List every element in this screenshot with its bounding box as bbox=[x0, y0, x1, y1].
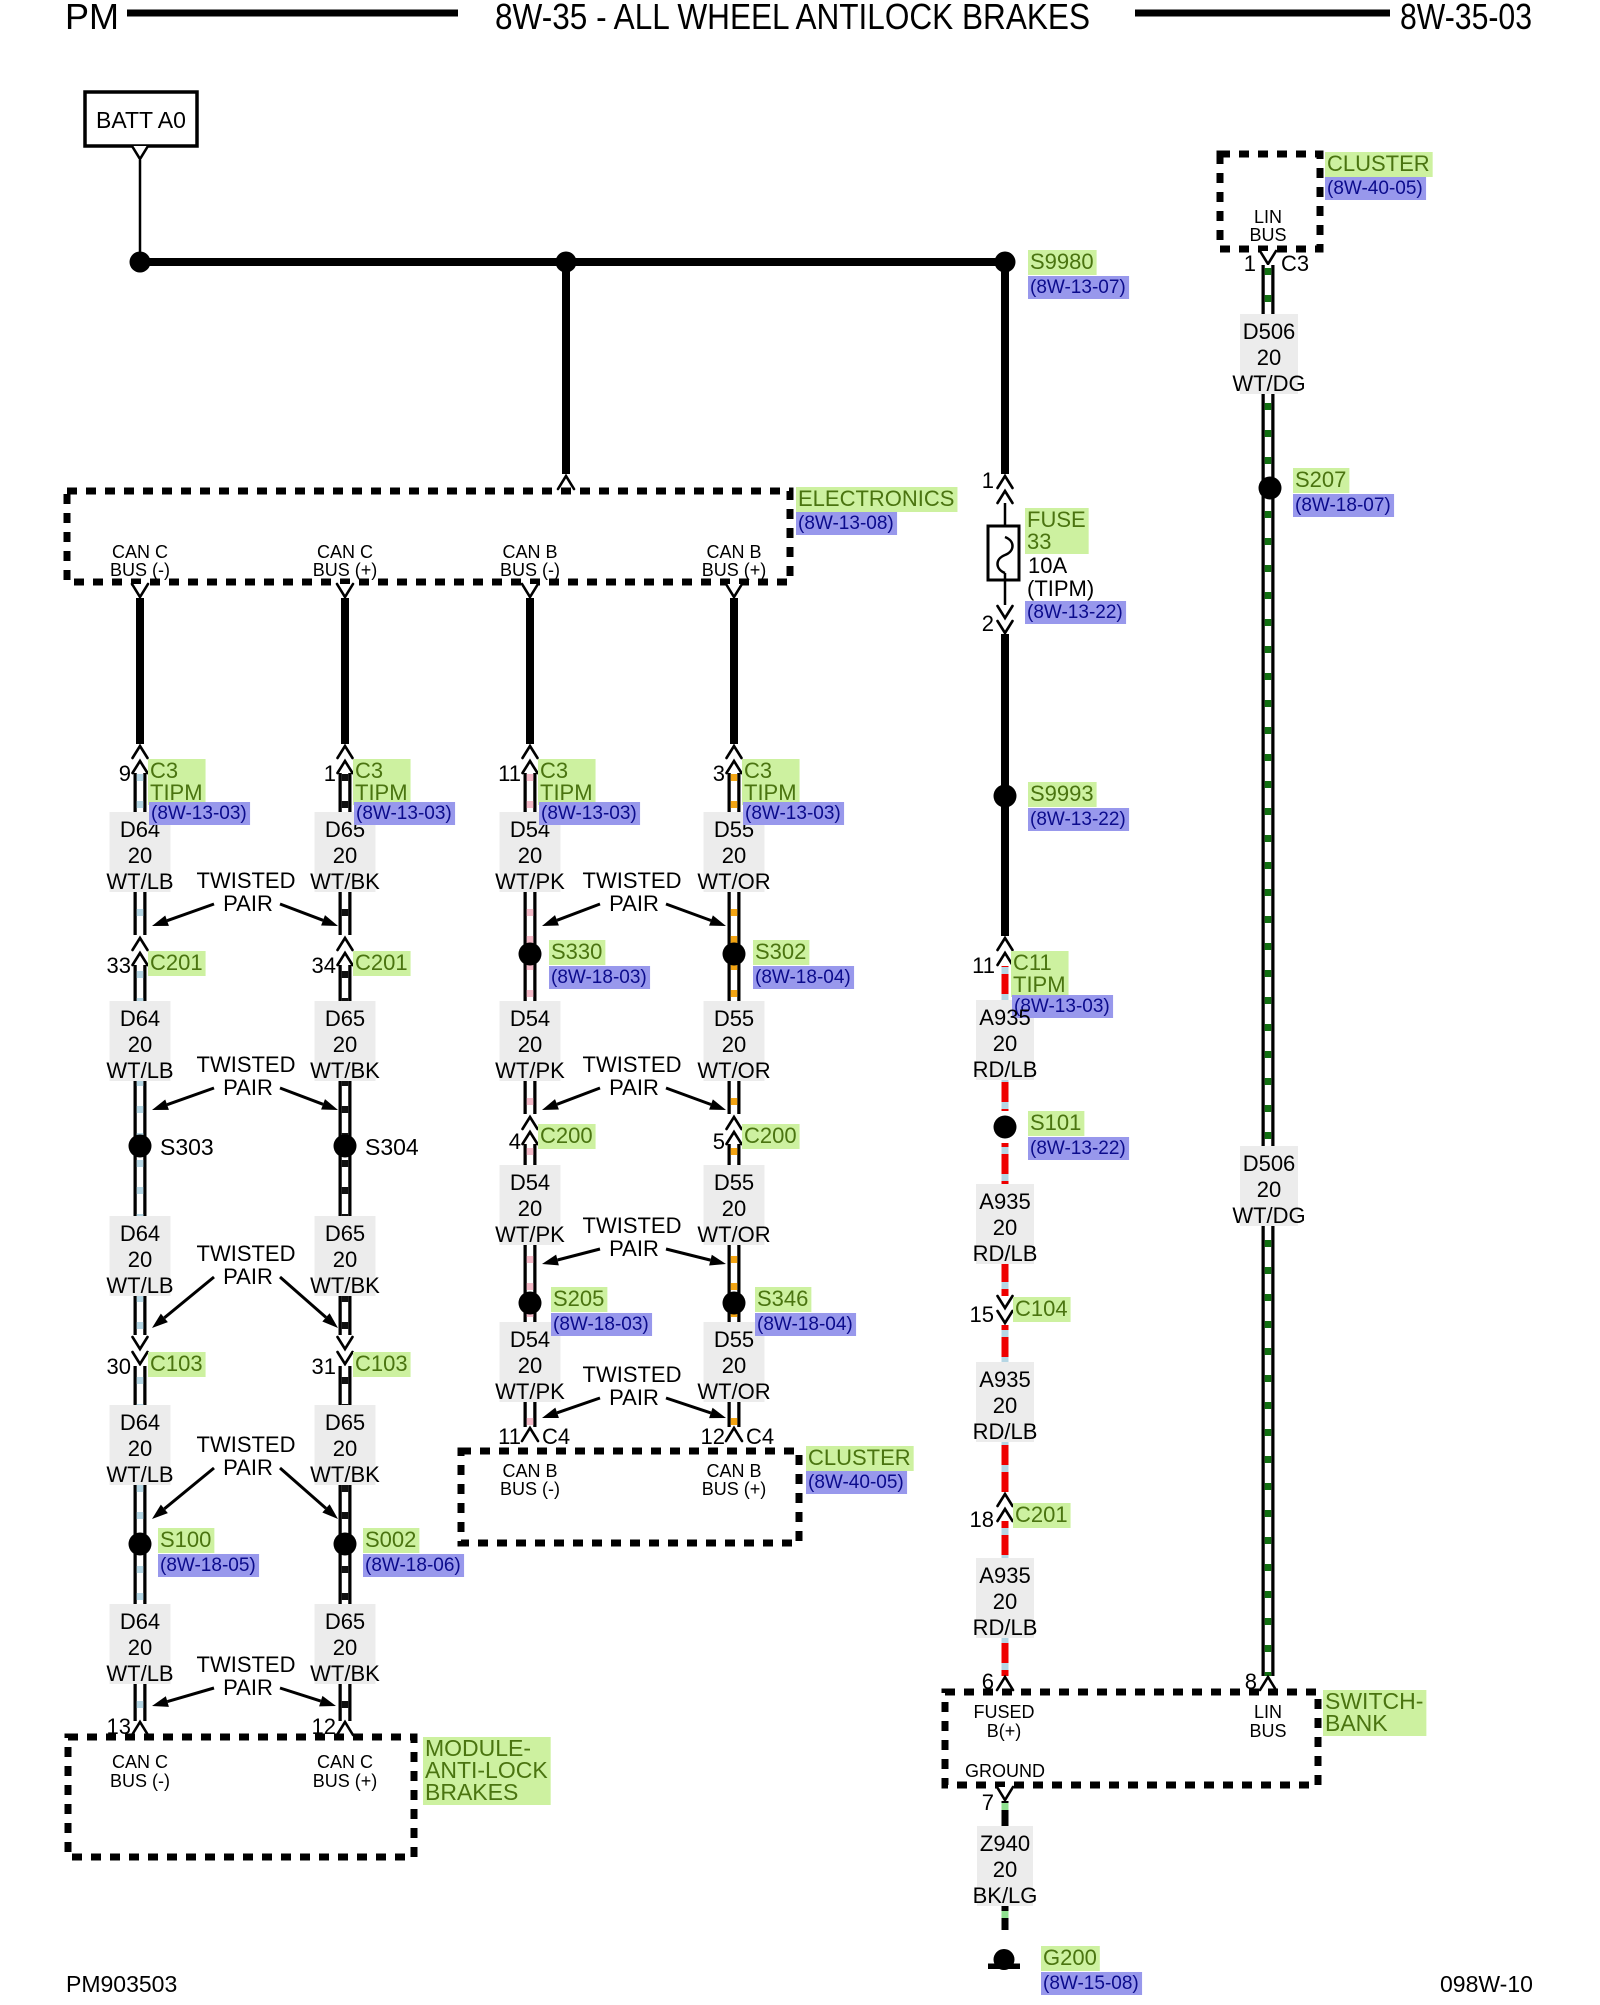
svg-text:TIPM: TIPM bbox=[355, 780, 408, 805]
pin chevron below ELECTRONICS canc+ bbox=[337, 584, 353, 597]
svg-text:LIN: LIN bbox=[1254, 1702, 1282, 1722]
module box CLUSTER (bottom) bbox=[461, 1451, 799, 1543]
svg-text:8W-35-03: 8W-35-03 bbox=[1400, 0, 1532, 37]
svg-text:1: 1 bbox=[982, 468, 994, 493]
connector C3 TIPM pin 3 chevrons bbox=[727, 746, 742, 773]
label S9980 page ref (8W-13-07) bbox=[1028, 276, 1129, 299]
svg-text:1: 1 bbox=[1244, 251, 1256, 276]
wire D65 WT/BK segment 2 bbox=[339, 965, 352, 1335]
connector C201 pin 34 chevrons bbox=[338, 938, 353, 965]
svg-text:TIPM: TIPM bbox=[150, 780, 203, 805]
svg-text:TWISTED: TWISTED bbox=[197, 1652, 296, 1677]
connector C200 pin 5 chevrons bbox=[727, 1117, 742, 1144]
wire BATT A0 to bus bbox=[139, 160, 142, 252]
connector C3 TIPM pin 9 chevrons bbox=[133, 746, 148, 773]
svg-text:(8W-13-03): (8W-13-03) bbox=[151, 803, 247, 824]
svg-text:S100: S100 bbox=[160, 1527, 211, 1552]
svg-text:CAN C: CAN C bbox=[317, 1752, 373, 1772]
connector label C103 x=345 bbox=[353, 1351, 411, 1377]
wire S9980 down to fuse pin 1 bbox=[1001, 262, 1009, 474]
svg-text:C200: C200 bbox=[744, 1123, 797, 1148]
label S9993 bbox=[1028, 781, 1097, 807]
svg-text:C103: C103 bbox=[150, 1351, 203, 1376]
pin chevron below ELECTRONICS canb+ bbox=[726, 584, 742, 597]
svg-text:GROUND: GROUND bbox=[965, 1761, 1045, 1781]
svg-text:WT/PK: WT/PK bbox=[495, 869, 565, 894]
svg-text:D506: D506 bbox=[1243, 319, 1296, 344]
pin chevron 12 into module bbox=[337, 1722, 353, 1735]
twisted pair callout 4 (CAN B) bbox=[542, 1362, 726, 1418]
connector label C104 bbox=[1013, 1296, 1071, 1322]
cluster pin label CAN B BUS (-) bbox=[500, 1461, 560, 1499]
svg-text:TWISTED: TWISTED bbox=[197, 1052, 296, 1077]
svg-text:D65: D65 bbox=[325, 1410, 365, 1435]
splice S207 bbox=[1259, 477, 1282, 500]
svg-text:D55: D55 bbox=[714, 1006, 754, 1031]
svg-text:B(+): B(+) bbox=[987, 1721, 1022, 1741]
svg-text:BUS (+): BUS (+) bbox=[313, 1771, 378, 1791]
svg-text:D64: D64 bbox=[120, 1609, 160, 1634]
label G200 bbox=[1041, 1945, 1100, 1971]
svg-text:PAIR: PAIR bbox=[609, 1236, 659, 1261]
svg-text:WT/LB: WT/LB bbox=[106, 1273, 173, 1298]
svg-text:RD/LB: RD/LB bbox=[973, 1057, 1038, 1082]
svg-text:WT/PK: WT/PK bbox=[495, 1058, 565, 1083]
svg-text:7: 7 bbox=[982, 1790, 994, 1815]
wire label D506 20 WT/DG box1 bbox=[1232, 314, 1305, 396]
label CLUSTER page ref (8W-40-05) top bbox=[1325, 177, 1426, 200]
splice S346 bbox=[723, 1292, 746, 1315]
connector C104 chevrons bbox=[998, 1296, 1013, 1323]
svg-text:PAIR: PAIR bbox=[223, 891, 273, 916]
wire label D54 20 WT/PK box3 bbox=[495, 1165, 565, 1247]
svg-text:C4: C4 bbox=[542, 1424, 570, 1449]
wire D55 WT/OR segment 1 bbox=[728, 773, 741, 1114]
svg-text:C4: C4 bbox=[746, 1424, 774, 1449]
wire label A935 20 RD/LB box4 bbox=[973, 1558, 1038, 1640]
junction dot mid bus bbox=[556, 252, 577, 273]
connector C3 TIPM pin 11 chevrons bbox=[523, 746, 538, 773]
label S100 page ref (8W-18-05) bbox=[158, 1554, 259, 1577]
junction dot at BATT A0 drop bbox=[130, 252, 151, 273]
splice S9993 bbox=[994, 785, 1017, 808]
wire label D64 20 WT/LB box1 bbox=[106, 812, 173, 894]
svg-text:WT/OR: WT/OR bbox=[697, 1222, 770, 1247]
svg-text:A935: A935 bbox=[979, 1563, 1030, 1588]
splice S205 bbox=[519, 1292, 542, 1315]
connector label C200 x=734 bbox=[742, 1123, 800, 1149]
wire label D64 20 WT/LB box3 bbox=[106, 1216, 173, 1298]
ELECTRONICS pin label canb- bbox=[500, 542, 560, 580]
wire label D54 20 WT/PK box1 bbox=[495, 812, 565, 894]
svg-text:CLUSTER: CLUSTER bbox=[1327, 151, 1430, 176]
pin chevron 8 into switch bank bbox=[1260, 1677, 1276, 1690]
svg-text:WT/BK: WT/BK bbox=[310, 1058, 380, 1083]
svg-text:(8W-18-07): (8W-18-07) bbox=[1295, 495, 1391, 516]
svg-text:(8W-18-06): (8W-18-06) bbox=[365, 1555, 461, 1576]
label S207 page ref (8W-18-07) bbox=[1293, 494, 1394, 517]
svg-text:PAIR: PAIR bbox=[223, 1075, 273, 1100]
svg-text:30: 30 bbox=[107, 1354, 131, 1379]
connector label C103 x=140 bbox=[148, 1351, 206, 1377]
svg-text:(8W-13-03): (8W-13-03) bbox=[745, 803, 841, 824]
svg-text:4: 4 bbox=[509, 1129, 521, 1154]
svg-text:CAN B: CAN B bbox=[706, 542, 761, 562]
svg-text:PAIR: PAIR bbox=[223, 1455, 273, 1480]
svg-text:20: 20 bbox=[128, 843, 152, 868]
svg-text:20: 20 bbox=[333, 1032, 357, 1057]
svg-text:(8W-13-07): (8W-13-07) bbox=[1030, 277, 1126, 298]
svg-text:5: 5 bbox=[713, 1129, 725, 1154]
label S330 page ref (8W-18-03) bbox=[549, 966, 650, 989]
wire label A935 20 RD/LB box2 bbox=[973, 1184, 1038, 1266]
svg-text:LIN: LIN bbox=[1254, 207, 1282, 227]
header rule right bbox=[1135, 10, 1390, 17]
splice S303 bbox=[129, 1135, 152, 1158]
connector label C201 x=140 bbox=[148, 950, 206, 976]
svg-text:ELECTRONICS: ELECTRONICS bbox=[798, 486, 954, 511]
label S302 bbox=[753, 939, 809, 965]
svg-text:33: 33 bbox=[1027, 529, 1051, 554]
svg-text:WT/BK: WT/BK bbox=[310, 1661, 380, 1686]
fuse page ref (8W-13-22) bbox=[1025, 601, 1126, 624]
page ref (8W-13-03) at x=345 bbox=[354, 802, 455, 825]
svg-text:TWISTED: TWISTED bbox=[583, 868, 682, 893]
svg-text:2: 2 bbox=[982, 611, 994, 636]
svg-text:TWISTED: TWISTED bbox=[197, 1241, 296, 1266]
svg-text:20: 20 bbox=[128, 1635, 152, 1660]
svg-text:C201: C201 bbox=[1015, 1502, 1068, 1527]
svg-text:D54: D54 bbox=[510, 1006, 550, 1031]
svg-text:WT/BK: WT/BK bbox=[310, 869, 380, 894]
wire D65 WT/BK segment 1 bbox=[339, 773, 352, 935]
svg-text:(8W-18-03): (8W-18-03) bbox=[551, 967, 647, 988]
connector C3 TIPM pin 1 chevrons bbox=[338, 746, 353, 773]
label S330 bbox=[549, 939, 605, 965]
svg-text:3: 3 bbox=[713, 761, 725, 786]
wire label D65 20 WT/BK box1 bbox=[310, 812, 380, 894]
header rule left bbox=[127, 10, 458, 17]
label CLUSTER page ref (8W-40-05) bottom bbox=[806, 1471, 907, 1494]
wire Z940 BK/LG bbox=[1002, 1801, 1009, 1930]
svg-text:20: 20 bbox=[993, 1857, 1017, 1882]
twisted pair callout 3 (CAN C) bbox=[152, 1241, 338, 1328]
svg-text:G200: G200 bbox=[1043, 1945, 1097, 1970]
svg-text:BK/LG: BK/LG bbox=[973, 1883, 1038, 1908]
svg-text:FUSED: FUSED bbox=[973, 1702, 1034, 1722]
svg-text:20: 20 bbox=[333, 843, 357, 868]
svg-text:(8W-13-03): (8W-13-03) bbox=[356, 803, 452, 824]
svg-text:20: 20 bbox=[518, 843, 542, 868]
svg-text:A935: A935 bbox=[979, 1367, 1030, 1392]
svg-text:CAN C: CAN C bbox=[112, 542, 168, 562]
svg-text:PAIR: PAIR bbox=[609, 1075, 659, 1100]
svg-text:C104: C104 bbox=[1015, 1296, 1068, 1321]
svg-text:20: 20 bbox=[1257, 1177, 1281, 1202]
svg-text:BUS (-): BUS (-) bbox=[500, 1479, 560, 1499]
svg-text:S9993: S9993 bbox=[1030, 781, 1094, 806]
wire D54 WT/PK segment 2 bbox=[524, 1144, 537, 1427]
pin chevron below ELECTRONICS canc- bbox=[132, 584, 148, 597]
ELECTRONICS pin label canc- bbox=[110, 542, 170, 580]
twisted pair callout 2 (CAN B) bbox=[542, 1052, 726, 1110]
svg-text:BATT A0: BATT A0 bbox=[96, 107, 186, 133]
pin chevron 11 C4 bbox=[522, 1428, 538, 1441]
svg-text:C200: C200 bbox=[540, 1123, 593, 1148]
svg-text:TWISTED: TWISTED bbox=[583, 1362, 682, 1387]
svg-text:20: 20 bbox=[993, 1393, 1017, 1418]
wire ELECTRONICS canc+ down bbox=[341, 598, 349, 744]
svg-text:(8W-15-08): (8W-15-08) bbox=[1043, 1973, 1139, 1994]
connector C103 pin 31 chevrons bbox=[338, 1337, 353, 1364]
svg-text:S207: S207 bbox=[1295, 467, 1346, 492]
label S346 bbox=[755, 1286, 811, 1312]
twisted pair callout 3 (CAN B) bbox=[542, 1213, 726, 1265]
svg-text:20: 20 bbox=[128, 1436, 152, 1461]
wire fuse to S9993 bbox=[1001, 634, 1009, 796]
label MODULE-ANTI-LOCK BRAKES bbox=[423, 1735, 551, 1805]
svg-text:S101: S101 bbox=[1030, 1110, 1081, 1135]
wire label D65 20 WT/BK box3 bbox=[310, 1216, 380, 1298]
twisted pair callout 5 (CAN C) bbox=[152, 1652, 336, 1707]
svg-text:CAN B: CAN B bbox=[502, 542, 557, 562]
label S9980 bbox=[1028, 249, 1097, 275]
svg-text:11: 11 bbox=[498, 1424, 521, 1449]
svg-text:(8W-40-05): (8W-40-05) bbox=[1327, 178, 1423, 199]
svg-text:20: 20 bbox=[993, 1215, 1017, 1240]
pin chevron 1 C3 under cluster bbox=[1260, 251, 1276, 264]
svg-text:11: 11 bbox=[498, 761, 521, 786]
svg-text:(8W-13-22): (8W-13-22) bbox=[1027, 602, 1123, 623]
label S101 page ref (8W-13-22) bbox=[1028, 1137, 1129, 1160]
svg-text:S302: S302 bbox=[755, 939, 806, 964]
connector C200 pin 4 chevrons bbox=[523, 1117, 538, 1144]
wire A935 RD/LB segment 2 bbox=[1002, 1325, 1009, 1492]
svg-text:TIPM: TIPM bbox=[744, 780, 797, 805]
label CLUSTER (bottom) bbox=[806, 1445, 914, 1471]
cluster pin label LIN BUS bbox=[1249, 207, 1286, 245]
svg-text:20: 20 bbox=[518, 1032, 542, 1057]
ELECTRONICS pin label canc+ bbox=[313, 542, 378, 580]
svg-text:(8W-13-03): (8W-13-03) bbox=[541, 803, 637, 824]
module box SWITCH-BANK bbox=[945, 1692, 1318, 1785]
switch bank pin label LIN BUS bbox=[1249, 1702, 1286, 1741]
connector label C3 TIPM at x=530 bbox=[538, 758, 596, 805]
svg-text:(8W-18-04): (8W-18-04) bbox=[757, 1314, 853, 1335]
wire label D54 20 WT/PK box2 bbox=[495, 1001, 565, 1083]
junction splice S9980 bbox=[995, 252, 1016, 273]
connector label C3 TIPM at x=734 bbox=[742, 758, 800, 805]
svg-text:WT/DG: WT/DG bbox=[1232, 1203, 1305, 1228]
svg-text:WT/BK: WT/BK bbox=[310, 1273, 380, 1298]
wire into fuse bbox=[1004, 503, 1007, 537]
svg-text:(8W-18-04): (8W-18-04) bbox=[755, 967, 851, 988]
wire A935 RD/LB segment 3 bbox=[1002, 1521, 1009, 1676]
svg-text:RD/LB: RD/LB bbox=[973, 1241, 1038, 1266]
svg-text:RD/LB: RD/LB bbox=[973, 1615, 1038, 1640]
fuse pin 2 chevrons bbox=[998, 606, 1013, 633]
svg-text:20: 20 bbox=[333, 1635, 357, 1660]
wire label D55 20 WT/OR box4 bbox=[697, 1322, 770, 1404]
module box MODULE-ANTI-LOCK BRAKES bbox=[68, 1737, 414, 1857]
wire label A935 20 RD/LB box1 text bbox=[973, 1005, 1038, 1082]
wire label A935 20 RD/LB box3 bbox=[973, 1362, 1038, 1444]
svg-text:D65: D65 bbox=[325, 1609, 365, 1634]
switch bank pin label FUSED B(+) bbox=[973, 1702, 1034, 1741]
wire label Z940 20 BK/LG bbox=[973, 1826, 1038, 1908]
connector C201 (power) chevrons bbox=[998, 1494, 1013, 1521]
ground symbol G200 bbox=[988, 1949, 1020, 1970]
svg-text:BUS (+): BUS (+) bbox=[702, 1479, 767, 1499]
svg-text:20: 20 bbox=[722, 1032, 746, 1057]
svg-text:20: 20 bbox=[1257, 345, 1281, 370]
svg-text:TWISTED: TWISTED bbox=[583, 1213, 682, 1238]
svg-text:S002: S002 bbox=[365, 1527, 416, 1552]
wire label D64 20 WT/LB box5 bbox=[106, 1604, 173, 1686]
page ref (8W-13-03) at x=530 bbox=[539, 802, 640, 825]
twisted pair callout 4 (CAN C) bbox=[152, 1432, 338, 1519]
svg-text:20: 20 bbox=[333, 1436, 357, 1461]
label S205 page ref (8W-18-03) bbox=[551, 1313, 652, 1336]
label ELECTRONICS page ref (8W-13-08) bbox=[796, 512, 897, 535]
connector label C201 (power) bbox=[1013, 1502, 1071, 1528]
wire ELECTRONICS canc- down bbox=[136, 598, 144, 744]
connector label C3 TIPM at x=345 bbox=[353, 758, 411, 805]
svg-text:TWISTED: TWISTED bbox=[197, 1432, 296, 1457]
svg-text:TIPM: TIPM bbox=[1013, 972, 1066, 997]
connector C103 pin 30 chevrons bbox=[133, 1337, 148, 1364]
wire A935 RD/LB segment 1b bbox=[1002, 1143, 1009, 1296]
wire D64 WT/LB segment 3 bbox=[134, 1366, 147, 1721]
svg-text:31: 31 bbox=[312, 1354, 336, 1379]
label S002 page ref (8W-18-06) bbox=[363, 1554, 464, 1577]
svg-text:(8W-18-03): (8W-18-03) bbox=[553, 1314, 649, 1335]
svg-text:D64: D64 bbox=[120, 1221, 160, 1246]
wire ELECTRONICS canb- down bbox=[526, 598, 534, 744]
svg-text:BUS (+): BUS (+) bbox=[702, 560, 767, 580]
label S346 page ref (8W-18-04) bbox=[755, 1313, 856, 1336]
svg-text:PAIR: PAIR bbox=[609, 1385, 659, 1410]
module box CLUSTER (top) bbox=[1220, 154, 1320, 249]
connector C201 pin 33 chevrons bbox=[133, 938, 148, 965]
wire D64 WT/LB segment 1 bbox=[134, 773, 147, 935]
svg-text:S303: S303 bbox=[160, 1134, 214, 1160]
svg-text:S205: S205 bbox=[553, 1286, 604, 1311]
svg-text:20: 20 bbox=[722, 1196, 746, 1221]
svg-text:15: 15 bbox=[970, 1302, 994, 1327]
pin chevron below ELECTRONICS canb- bbox=[522, 584, 538, 597]
connector label C201 x=345 bbox=[353, 950, 411, 976]
svg-text:Z940: Z940 bbox=[980, 1831, 1030, 1856]
wire label D64 20 WT/LB box2 bbox=[106, 1001, 173, 1083]
svg-text:S330: S330 bbox=[551, 939, 602, 964]
svg-text:20: 20 bbox=[333, 1247, 357, 1272]
svg-text:CAN B: CAN B bbox=[706, 1461, 761, 1481]
wire ELECTRONICS canb+ down bbox=[730, 598, 738, 744]
svg-text:(8W-13-22): (8W-13-22) bbox=[1030, 1138, 1126, 1159]
svg-text:D64: D64 bbox=[120, 1006, 160, 1031]
svg-text:WT/LB: WT/LB bbox=[106, 1058, 173, 1083]
svg-text:BANK: BANK bbox=[1325, 1710, 1388, 1736]
svg-text:D55: D55 bbox=[714, 1327, 754, 1352]
ELECTRONICS pin label canb+ bbox=[702, 542, 767, 580]
svg-text:20: 20 bbox=[128, 1032, 152, 1057]
svg-text:D54: D54 bbox=[510, 1327, 550, 1352]
bus wire A0 bbox=[140, 258, 1005, 266]
svg-text:WT/BK: WT/BK bbox=[310, 1462, 380, 1487]
svg-text:S346: S346 bbox=[757, 1286, 808, 1311]
wire label A935 20 RD/LB box1 background bbox=[976, 1000, 1034, 1080]
wire D64 WT/LB segment 2 bbox=[134, 965, 147, 1335]
splice S100 bbox=[129, 1533, 152, 1556]
label S205 bbox=[551, 1286, 607, 1312]
svg-text:A935: A935 bbox=[979, 1005, 1030, 1030]
splice S101 bbox=[994, 1116, 1017, 1139]
pin chevron 7 below switch bank bbox=[997, 1787, 1013, 1800]
svg-text:S304: S304 bbox=[365, 1134, 419, 1160]
label S207 bbox=[1293, 467, 1349, 493]
svg-text:CLUSTER: CLUSTER bbox=[808, 1445, 911, 1470]
twisted pair callout 1 (CAN C) bbox=[152, 868, 338, 926]
cluster pin label CAN B BUS (+) bbox=[702, 1461, 767, 1499]
wire D54 WT/PK segment 1 bbox=[524, 773, 537, 1114]
svg-text:(8W-40-05): (8W-40-05) bbox=[808, 1472, 904, 1493]
connector label C11 TIPM bbox=[1011, 950, 1069, 997]
fuse pin 1 chevrons bbox=[998, 476, 1013, 503]
svg-text:CAN B: CAN B bbox=[502, 1461, 557, 1481]
svg-text:20: 20 bbox=[993, 1589, 1017, 1614]
label CLUSTER (top) bbox=[1325, 151, 1433, 177]
module box ELECTRONICS bbox=[67, 491, 790, 582]
splice S330 bbox=[519, 943, 542, 966]
svg-text:BRAKES: BRAKES bbox=[425, 1779, 518, 1805]
svg-text:PAIR: PAIR bbox=[609, 891, 659, 916]
label S002 bbox=[363, 1527, 419, 1553]
svg-text:33: 33 bbox=[107, 953, 131, 978]
svg-text:1: 1 bbox=[324, 761, 336, 786]
pin chevron 13 into module bbox=[132, 1722, 148, 1735]
svg-text:CAN C: CAN C bbox=[317, 542, 373, 562]
svg-text:BUS (-): BUS (-) bbox=[110, 1771, 170, 1791]
page ref (8W-13-03) at C11 bbox=[1012, 995, 1113, 1018]
svg-text:20: 20 bbox=[993, 1031, 1017, 1056]
wire A935 RD/LB segment 1a bbox=[1002, 966, 1009, 1111]
pin chevron into ELECTRONICS bbox=[558, 476, 574, 489]
svg-text:11: 11 bbox=[972, 953, 995, 978]
svg-text:BUS: BUS bbox=[1249, 225, 1286, 245]
svg-text:RD/LB: RD/LB bbox=[973, 1419, 1038, 1444]
label ELECTRONICS bbox=[796, 486, 957, 512]
connector pin under BATT A0 bbox=[132, 146, 148, 159]
wire label D55 20 WT/OR box1 bbox=[697, 812, 770, 894]
svg-text:D65: D65 bbox=[325, 1006, 365, 1031]
module pin label CAN C BUS (+) bbox=[313, 1752, 378, 1791]
svg-text:PM: PM bbox=[65, 0, 119, 37]
label SWITCH-BANK bbox=[1323, 1688, 1426, 1736]
label S101 bbox=[1028, 1110, 1084, 1136]
svg-text:C201: C201 bbox=[150, 950, 203, 975]
wire D65 WT/BK segment 3 bbox=[339, 1366, 352, 1721]
label FUSE 33 bbox=[1025, 507, 1089, 554]
svg-text:D64: D64 bbox=[120, 1410, 160, 1435]
wire S9993 to C11 bbox=[1001, 796, 1009, 936]
svg-text:D65: D65 bbox=[325, 1221, 365, 1246]
svg-text:WT/PK: WT/PK bbox=[495, 1222, 565, 1247]
module pin label CAN C BUS (-) bbox=[110, 1752, 170, 1791]
svg-text:WT/OR: WT/OR bbox=[697, 869, 770, 894]
twisted pair callout 2 (CAN C) bbox=[152, 1052, 338, 1110]
svg-text:D54: D54 bbox=[510, 1170, 550, 1195]
